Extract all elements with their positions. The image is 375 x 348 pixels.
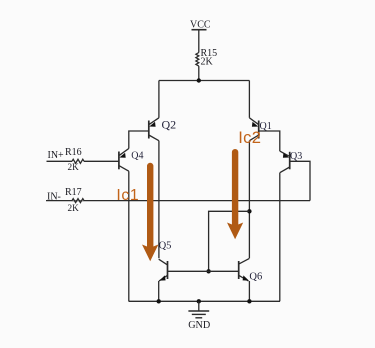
svg-text:IN-: IN- [47,192,61,203]
ground GND [188,301,209,318]
svg-text:2K: 2K [201,57,214,68]
junction mirror node [247,209,251,213]
svg-text:GND: GND [188,320,210,331]
transistor Q3 [280,151,290,173]
wire R16 to Q4 base [84,160,119,162]
wire Q1 base to Q3 emitter [259,131,280,151]
junction GND/rail [197,299,201,303]
wire Q2 base to Q4 emitter [129,131,149,149]
svg-text:Q6: Q6 [249,271,262,282]
svg-text:Ic2: Ic2 [238,128,261,147]
transistor Q1 [249,118,258,141]
svg-text:Ic1: Ic1 [116,187,139,204]
junction base branch [206,269,210,273]
svg-text:R16: R16 [65,147,82,158]
wire IN- [46,200,310,202]
power port VCC [192,30,207,53]
svg-text:Q3: Q3 [290,151,302,162]
transistor Q6 [239,258,250,281]
wire Q3 collector [279,173,281,302]
wire Q3 base [290,161,310,200]
wire R15 to rail [198,66,200,80]
svg-text:VCC: VCC [190,20,211,31]
transistor Q5 [159,259,168,281]
svg-text:Q2: Q2 [162,117,177,131]
svg-text:Q1: Q1 [260,121,272,132]
resistor R15 [196,53,199,67]
wire Q5 base to Q6 base [168,270,239,272]
wire Q2 collector to Q5 collector [158,141,160,259]
svg-text:2K: 2K [68,203,80,213]
junction R15/rail [197,78,201,82]
current arrow Ic2 [227,152,243,239]
wire rail to Q2 emitter [158,81,160,118]
wire rail to Q1 emitter [248,81,250,118]
junction Q6 emitter/rail [247,299,251,303]
wire IN+ left segment [47,160,73,162]
transistor Q4 [119,149,129,172]
junction Q5 emitter/rail [157,299,161,303]
svg-text:IN+: IN+ [48,150,65,161]
wire ground rail [129,300,280,302]
current arrow Ic1 [142,166,158,261]
wire Q4 collector [128,171,130,301]
wire Q1 collector to Q6 collector [248,141,250,259]
transistor Q2 [149,118,159,141]
svg-text:Q4: Q4 [131,151,143,162]
resistor R16 [72,159,84,163]
svg-text:2K: 2K [68,162,80,172]
wire Q6 emitter [248,281,250,301]
svg-text:Q5: Q5 [159,240,172,251]
wire top rail [159,80,250,82]
svg-text:R17: R17 [65,187,82,198]
wire mirror branch [209,211,250,271]
wire Q5 emitter [158,281,160,301]
resistor R17 [72,199,84,203]
